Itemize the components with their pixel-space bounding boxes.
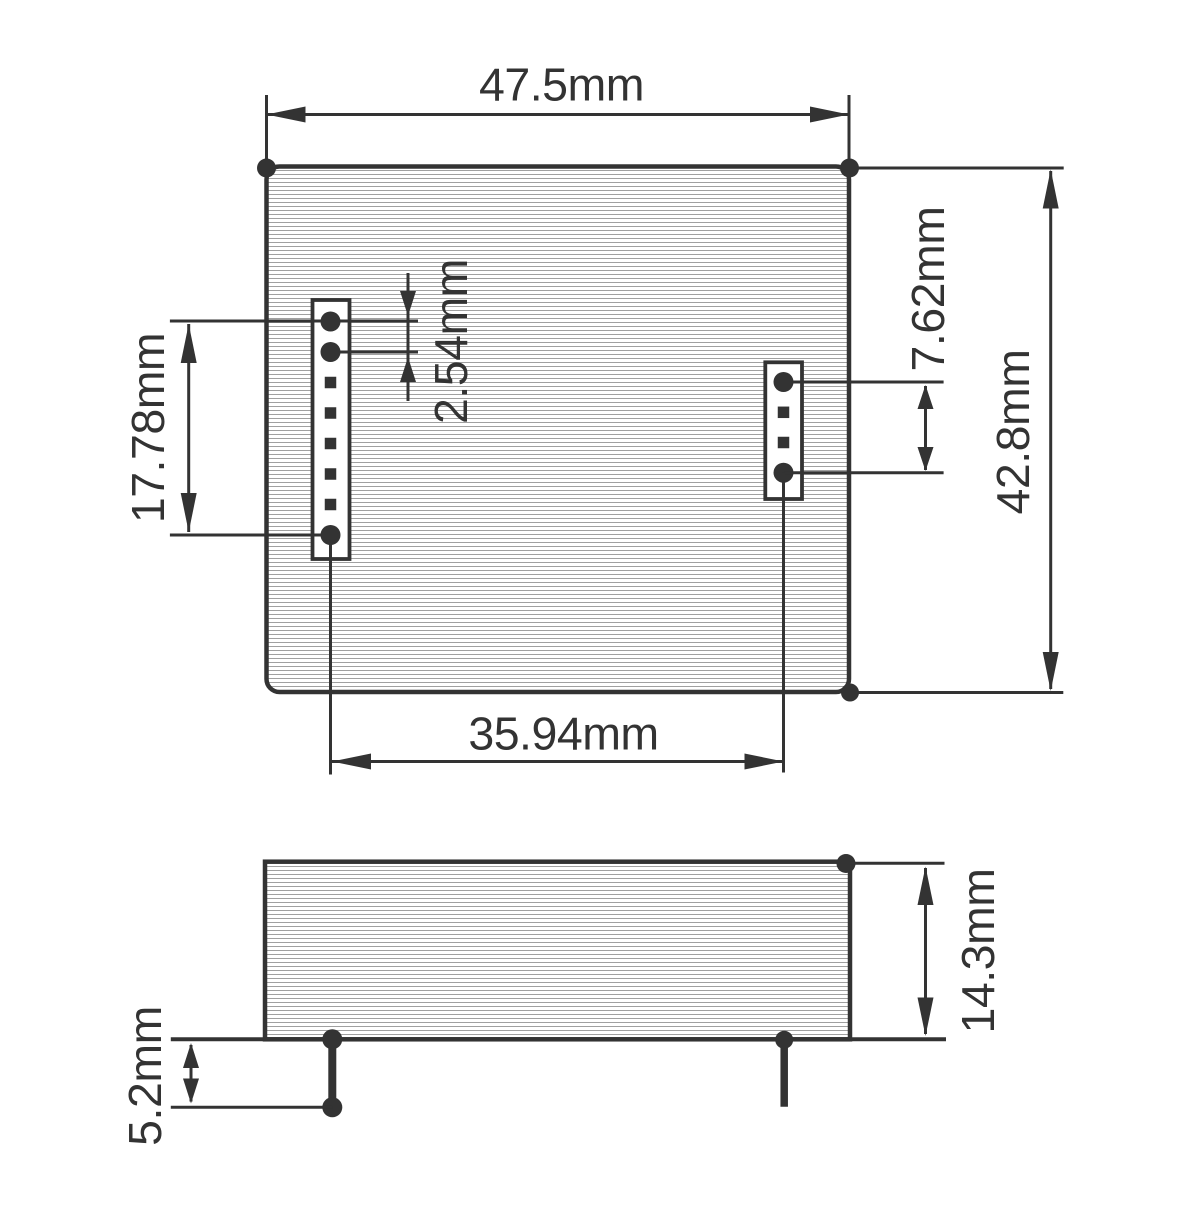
extension line 5.2 bottom bbox=[171, 1106, 332, 1109]
left header pin 8 bbox=[321, 525, 341, 545]
arrowhead 14.3 down bbox=[918, 998, 934, 1037]
left header pin 1 bbox=[321, 312, 341, 332]
extension line 14.3 top bbox=[850, 862, 945, 865]
arrowhead 47.5 left bbox=[267, 107, 306, 123]
svg-text:17.78mm: 17.78mm bbox=[122, 333, 174, 523]
svg-text:2.54mm: 2.54mm bbox=[425, 259, 477, 424]
dimension line 47.5 bbox=[267, 113, 850, 116]
arrowhead 35.94 left bbox=[332, 754, 371, 770]
extension line 2.54 lower bbox=[331, 351, 419, 354]
svg-text:47.5mm: 47.5mm bbox=[479, 59, 644, 111]
svg-text:7.62mm: 7.62mm bbox=[902, 207, 954, 372]
extension line 17.78 top bbox=[170, 320, 418, 323]
arrowhead 35.94 right bbox=[745, 754, 784, 770]
left header pin 5 bbox=[325, 438, 337, 450]
extension line 47.5 right bbox=[848, 95, 851, 167]
arrowhead 2.54 down bbox=[400, 291, 416, 316]
side view left pin bottom dot bbox=[322, 1097, 342, 1117]
arrowhead 47.5 right bbox=[810, 107, 849, 123]
seating plane line bbox=[171, 1037, 946, 1041]
left header pin 2 bbox=[321, 342, 341, 362]
dimension line 5.2 bbox=[190, 1045, 193, 1102]
svg-text:14.3mm: 14.3mm bbox=[952, 869, 1004, 1034]
side view left pin bbox=[328, 1039, 336, 1107]
right header pin 3 bbox=[778, 437, 790, 449]
arrowhead 17.78 up bbox=[181, 324, 197, 363]
extension line 42.8 top bbox=[850, 167, 1064, 170]
corner dot side view top-right bbox=[837, 854, 856, 873]
right header pin 2 bbox=[778, 407, 790, 419]
pin stem right top view bbox=[782, 473, 785, 773]
module body side view bbox=[265, 862, 850, 1040]
side view left pin top dot bbox=[322, 1029, 342, 1049]
dimension line 35.94 bbox=[332, 760, 785, 763]
left header pin 6 bbox=[325, 468, 337, 480]
left pin header outline bbox=[313, 300, 350, 559]
extension line 17.78 bottom bbox=[170, 534, 331, 537]
svg-text:42.8mm: 42.8mm bbox=[987, 350, 1039, 515]
extension line 7.62 bottom bbox=[784, 471, 944, 474]
extension line 47.5 left bbox=[265, 95, 268, 167]
right header pin 1 bbox=[774, 372, 794, 392]
right header pin 4 bbox=[774, 463, 794, 483]
arrowhead 42.8 up bbox=[1043, 170, 1059, 209]
svg-text:35.94mm: 35.94mm bbox=[468, 708, 658, 760]
left header pin 3 bbox=[325, 377, 337, 389]
pin stem left top view bbox=[329, 535, 332, 775]
dimension line 2.54 bbox=[407, 273, 410, 401]
arrowhead 7.62 down bbox=[918, 447, 934, 471]
arrowhead 14.3 up bbox=[918, 867, 934, 906]
right pin header outline bbox=[765, 362, 802, 499]
arrowhead 2.54 up bbox=[400, 357, 416, 382]
svg-text:5.2mm: 5.2mm bbox=[119, 1006, 171, 1146]
left header pin 7 bbox=[325, 499, 337, 511]
left header pin 4 bbox=[325, 407, 337, 419]
dimension line 7.62 bbox=[924, 386, 927, 470]
arrowhead 5.2 down bbox=[183, 1079, 199, 1104]
dimension line 17.78 bbox=[187, 324, 190, 532]
arrowhead 42.8 down bbox=[1043, 652, 1059, 691]
extension line 42.8 bottom bbox=[850, 691, 1063, 694]
arrowhead 5.2 up bbox=[183, 1043, 199, 1068]
dimension line 14.3 bbox=[924, 868, 927, 1034]
arrowhead 17.78 down bbox=[181, 493, 197, 532]
arrowhead 7.62 up bbox=[918, 385, 934, 409]
module body top view bbox=[267, 167, 850, 693]
corner dot top-right bbox=[840, 159, 859, 178]
extension line 7.62 top bbox=[784, 381, 944, 384]
corner dot bottom-right bbox=[841, 684, 859, 702]
corner dot top-left bbox=[257, 159, 276, 178]
dimension line 42.8 bbox=[1049, 171, 1052, 689]
side view right pin top dot bbox=[775, 1031, 793, 1049]
side view right pin bbox=[780, 1039, 788, 1107]
